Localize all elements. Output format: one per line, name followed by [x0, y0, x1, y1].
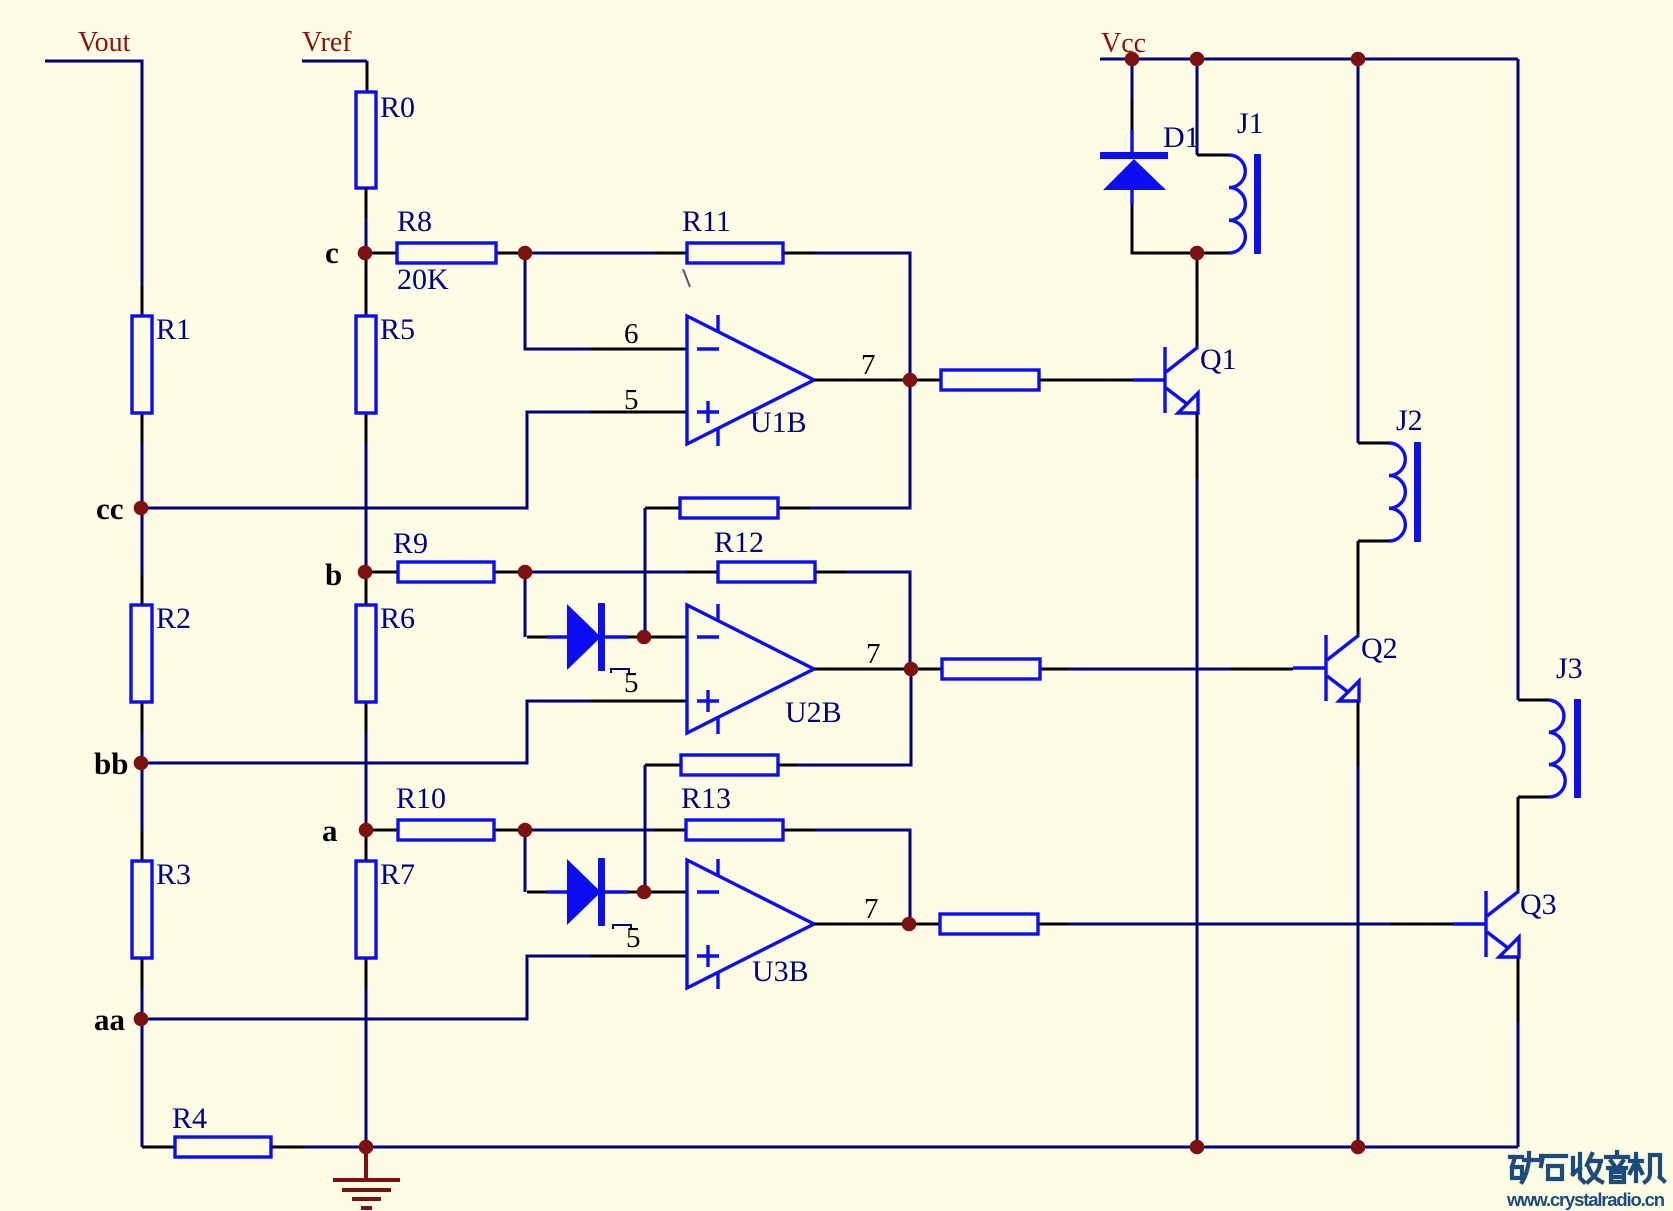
svg-text:R3: R3: [156, 858, 191, 891]
resistor R7: [356, 830, 415, 988]
junction rail Q1: [1190, 1140, 1205, 1155]
wire Vref column to node c: [365, 218, 368, 253]
wire J3 bottom to Q3 collector: [1517, 797, 1520, 891]
op-amp U3B: [687, 859, 814, 989]
svg-text:R6: R6: [380, 602, 415, 635]
resistor R13: [655, 782, 815, 840]
watermark url: [1506, 1189, 1665, 1210]
diode U3B input: [527, 858, 644, 926]
wire bb to U2B pin5: [141, 701, 591, 763]
resistor R3: [132, 831, 191, 988]
svg-text:R2: R2: [156, 602, 191, 635]
resistor feedback U2B-U3B (unlabeled): [645, 755, 797, 775]
wire Vout column R2 to bb to R3: [141, 732, 144, 831]
relay coil J1: [1197, 107, 1264, 254]
resistor feedback U1B-U2B (unlabeled): [645, 498, 810, 518]
wire node R8 down to U1B pin6: [525, 253, 591, 349]
svg-text:J1: J1: [1237, 107, 1264, 140]
wire Vcc rail: [1100, 58, 1518, 61]
wire Q1 emitter to ground rail: [1196, 413, 1199, 1147]
svg-text:Vout: Vout: [78, 27, 131, 58]
wire U2B output resistor to Q2 base: [1068, 668, 1293, 671]
wire Vout rail: [45, 61, 142, 286]
svg-text:www.crystalradio.cn: www.crystalradio.cn: [1506, 1189, 1665, 1210]
junction Vcc J2: [1351, 52, 1366, 67]
wire U2B output to feedback resistor 2: [797, 669, 911, 765]
wire J2 bottom to Q2 collector: [1357, 541, 1360, 635]
svg-text:7: 7: [861, 349, 876, 381]
junction node aa: [134, 1012, 149, 1027]
svg-text:R13: R13: [681, 782, 731, 815]
junction node b: [358, 565, 373, 580]
svg-text:R5: R5: [380, 313, 415, 346]
svg-text:c: c: [325, 235, 339, 270]
junction node cc: [134, 501, 149, 516]
watermark logo: [1510, 1152, 1664, 1182]
svg-text:20K: 20K: [397, 263, 449, 296]
wire Q3 emitter to ground rail: [1517, 957, 1520, 1147]
wire cc to U1B pin5: [141, 412, 591, 508]
stray tick mark: [683, 269, 690, 287]
resistor R1: [132, 286, 191, 443]
svg-text:D1: D1: [1163, 121, 1200, 154]
wire aa to U3B pin5: [141, 956, 591, 1019]
junction Vcc D1: [1125, 52, 1140, 67]
junction U2B output: [904, 662, 919, 677]
transistor Q2: [1293, 632, 1398, 701]
svg-text:7: 7: [864, 893, 879, 925]
resistor R8: [366, 205, 527, 296]
resistor R6: [356, 572, 415, 732]
svg-text:aa: aa: [94, 1002, 126, 1037]
resistor R4: [142, 1102, 304, 1157]
svg-text:bb: bb: [94, 746, 128, 781]
svg-text:U2B: U2B: [785, 696, 842, 729]
junction after R10: [518, 823, 533, 838]
junction U2B inv input: [637, 630, 652, 645]
svg-text:5: 5: [624, 384, 639, 416]
pin 5 lead U1B: [591, 384, 687, 416]
transistor Q1: [1133, 343, 1237, 413]
resistor R0: [356, 91, 415, 218]
svg-text:b: b: [325, 557, 342, 592]
net label Vcc: [1101, 28, 1146, 59]
wire feedback to U2B inv node: [644, 508, 647, 637]
pin 6 lead U3B: [644, 891, 687, 894]
junction after R9: [518, 565, 533, 580]
diode D1: [1100, 121, 1200, 253]
wire Vcc right rail to J3: [1517, 59, 1520, 700]
relay coil J3: [1518, 652, 1583, 798]
resistor U1B output (unlabeled): [910, 370, 1133, 390]
resistor R11: [655, 205, 815, 263]
svg-text:Q3: Q3: [1520, 888, 1557, 921]
svg-text:5: 5: [624, 667, 639, 699]
wire Vcc to D1: [1131, 59, 1134, 130]
wire R7 to ground node: [365, 988, 368, 1147]
junction Vcc J1: [1190, 52, 1205, 67]
svg-text:5: 5: [626, 922, 641, 954]
svg-text:R11: R11: [682, 205, 731, 238]
wire Vref rail: [302, 61, 367, 92]
wire R5 to node b: [365, 443, 368, 572]
svg-text:7: 7: [866, 638, 881, 670]
svg-text:R9: R9: [393, 527, 428, 560]
resistor R5: [356, 253, 415, 443]
wire U3B output resistor to Q3 base: [1068, 923, 1453, 926]
junction U1B output: [903, 373, 918, 388]
resistor R9: [366, 527, 527, 582]
junction U3B output: [902, 917, 917, 932]
pin 7 lead U1B: [814, 349, 909, 381]
net label Vref: [302, 27, 352, 58]
wire node R9 down to diode: [524, 572, 527, 637]
wire feedback 2 to U3B inv node: [644, 765, 647, 892]
junction D1 J1: [1190, 246, 1205, 261]
pin 5 lead U2B: [591, 700, 687, 703]
svg-text:U3B: U3B: [752, 955, 809, 988]
net label 5bar U3B: [613, 922, 641, 954]
wire Q2 emitter to ground rail: [1357, 701, 1360, 1147]
svg-text:a: a: [322, 813, 338, 848]
diode U2B input: [527, 603, 644, 671]
node bb: [94, 746, 128, 781]
wire node R10 down to diode 3: [524, 830, 527, 892]
resistor U2B output (unlabeled): [911, 659, 1068, 679]
wire R12 to U2B output corner: [847, 572, 910, 669]
node b: [325, 557, 342, 592]
svg-text:R4: R4: [172, 1102, 207, 1135]
node aa: [94, 1002, 126, 1037]
ground symbol: [333, 1152, 400, 1208]
svg-text:R12: R12: [714, 526, 764, 559]
net label 5bar U2B: [611, 667, 639, 699]
svg-text:J2: J2: [1396, 404, 1423, 437]
junction U3B inv input: [637, 885, 652, 900]
svg-text:6: 6: [624, 318, 639, 350]
node c: [325, 235, 339, 270]
wire R6 to node a: [365, 732, 368, 830]
junction node bb: [134, 756, 149, 771]
svg-text:R10: R10: [396, 782, 446, 815]
wire node R10 to R13: [525, 829, 655, 832]
svg-text:R1: R1: [156, 313, 191, 346]
wire J1 bottom to Q1 collector: [1196, 253, 1199, 347]
pin 5 lead U3B: [591, 955, 687, 958]
wire R11 to U1B output corner: [815, 253, 910, 380]
wire Vcc to J2: [1357, 59, 1360, 443]
wire ground rail: [366, 1146, 1518, 1149]
net label Vout: [78, 27, 131, 58]
transistor Q3: [1453, 888, 1557, 957]
svg-text:Vcc: Vcc: [1101, 28, 1146, 59]
wire node R9 to R12: [525, 571, 687, 574]
svg-text:Q2: Q2: [1361, 632, 1398, 665]
pin 6 lead U2B: [644, 636, 687, 639]
wire Vout column R1 to cc to R2: [141, 443, 144, 575]
svg-text:R0: R0: [380, 91, 415, 124]
svg-text:Vref: Vref: [302, 27, 352, 58]
wire R13 to U3B output corner: [815, 830, 910, 924]
node cc: [96, 491, 124, 526]
svg-text:R7: R7: [380, 858, 415, 891]
junction rail Q2: [1351, 1140, 1366, 1155]
svg-text:J3: J3: [1556, 652, 1583, 685]
resistor R2: [131, 575, 191, 732]
wire R4 to ground: [304, 1146, 366, 1149]
junction node a: [359, 823, 374, 838]
pin 7 lead U3B: [814, 893, 909, 925]
resistor U3B output (unlabeled): [909, 914, 1068, 934]
svg-text:Q1: Q1: [1200, 343, 1237, 376]
junction ground node: [359, 1140, 374, 1155]
svg-text:U1B: U1B: [750, 406, 807, 439]
op-amp U1B: [687, 315, 814, 446]
node a: [322, 813, 338, 848]
svg-text:R8: R8: [397, 205, 432, 238]
relay coil J2: [1358, 404, 1423, 542]
resistor R10: [366, 782, 527, 840]
pin 7 lead U2B: [814, 638, 911, 670]
wire Vcc to J1: [1196, 59, 1199, 155]
op-amp U2B: [687, 604, 842, 734]
junction after R8: [518, 246, 533, 261]
wire node R8 to R11: [525, 252, 655, 255]
junction node c: [358, 246, 373, 261]
resistor R12: [687, 526, 847, 582]
svg-text:cc: cc: [96, 491, 124, 526]
wire U1B output to feedback resistor: [810, 380, 910, 508]
wire Vout column R3 to aa to R4 corner: [141, 988, 144, 1147]
pin 6 lead U1B: [591, 318, 687, 350]
